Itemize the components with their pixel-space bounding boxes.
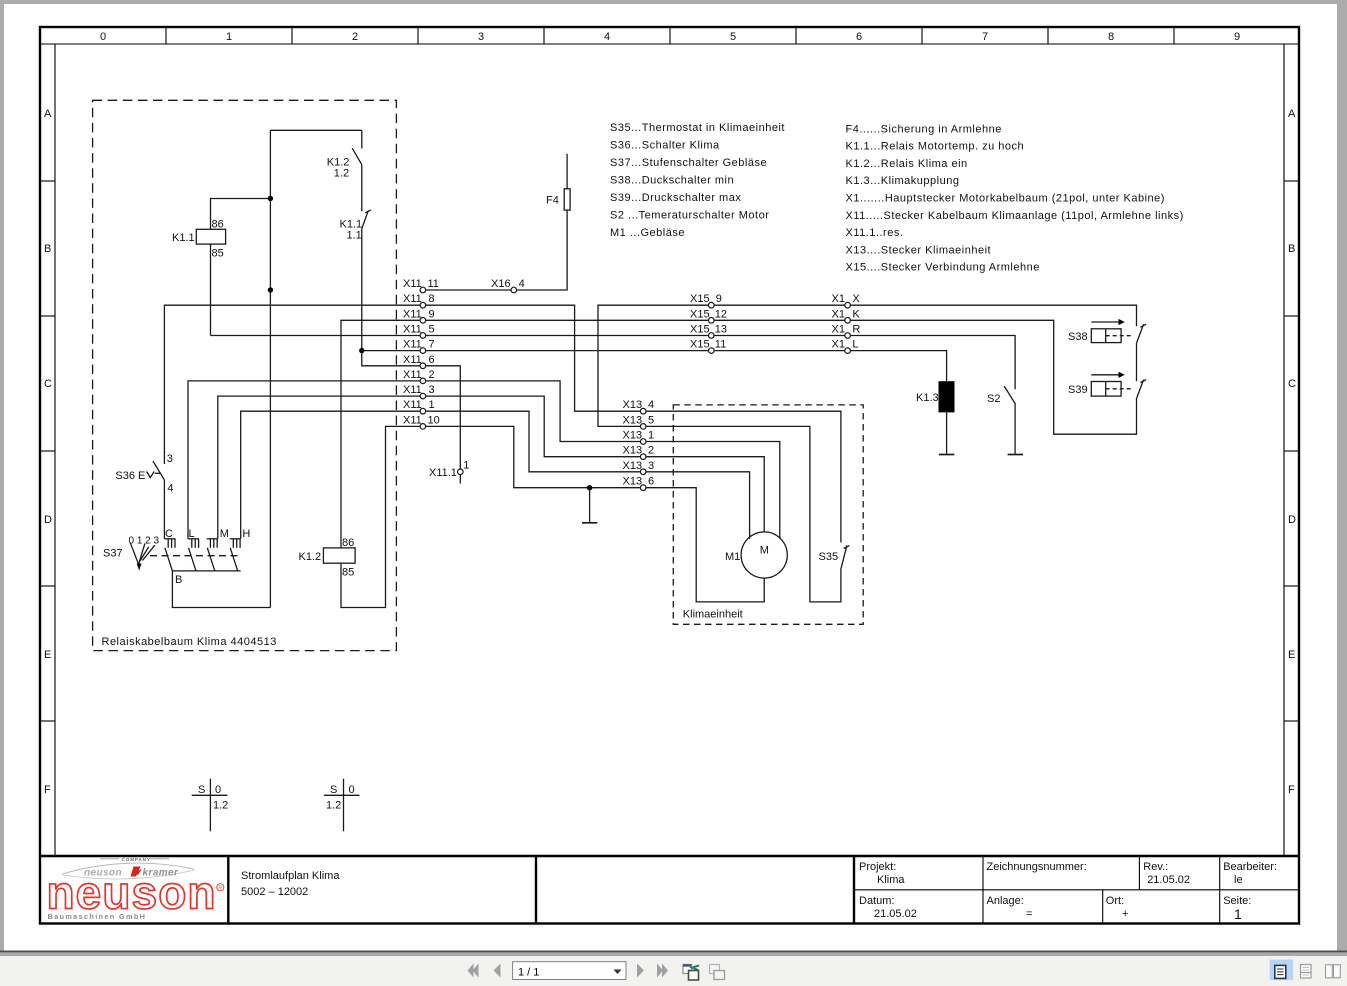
- svg-text:1.2: 1.2: [334, 168, 349, 180]
- svg-text:S38: S38: [1068, 331, 1088, 343]
- svg-text:+: +: [1122, 908, 1128, 920]
- svg-text:X1: X1: [832, 293, 845, 305]
- wire X11-10 to X13-6: [426, 426, 640, 487]
- wire X11-8 to X13-4: [426, 305, 640, 411]
- svg-text:E: E: [1288, 649, 1295, 661]
- node S/0 reference symbol 1: [209, 779, 211, 832]
- svg-text:10: 10: [428, 414, 440, 426]
- wire X11-9 row to K1.2 coil 86: [341, 320, 420, 548]
- svg-text:S2: S2: [987, 393, 1000, 405]
- wire X13-3 to motor: [646, 472, 749, 539]
- S37 contact H blade: [230, 548, 238, 571]
- connector X11 pin 6: [420, 363, 426, 369]
- node junction X11-7 tee: [359, 348, 364, 353]
- title block middle horizontal: [854, 889, 1299, 891]
- page layout continuous button: [1301, 965, 1312, 979]
- connector X1 pin R: [845, 333, 851, 339]
- connector X11 pin 9: [420, 318, 426, 324]
- svg-text:X11: X11: [403, 414, 422, 426]
- svg-text:5: 5: [648, 414, 654, 426]
- svg-text:Baumaschinen GmbH: Baumaschinen GmbH: [48, 912, 147, 921]
- svg-text:85: 85: [212, 248, 224, 260]
- svg-text:S36...Schalter Klima: S36...Schalter Klima: [610, 140, 720, 152]
- connector X11 pin 2: [420, 378, 426, 384]
- svg-text:S37...Stufenschalter Gebläse: S37...Stufenschalter Gebläse: [610, 157, 767, 169]
- wire X15-11 to X1-L: [714, 350, 844, 352]
- svg-text:S38...Duckschalter min: S38...Duckschalter min: [610, 175, 734, 187]
- wire X11.1 stub: [459, 475, 461, 484]
- wire S36-4 to S37-C: [163, 480, 165, 539]
- svg-text:3: 3: [167, 453, 173, 465]
- svg-text:12: 12: [715, 308, 727, 320]
- S37 common bus B: [172, 570, 240, 572]
- svg-text:X: X: [852, 293, 860, 305]
- S37 contact L blade: [189, 548, 197, 571]
- relay coil K1.1: [196, 229, 225, 244]
- pressure switch S38: [1091, 329, 1121, 343]
- toolbar previous page button: [494, 964, 501, 978]
- svg-text:B: B: [44, 243, 51, 255]
- kramer red arrow: [131, 867, 141, 877]
- svg-text:X11: X11: [403, 324, 422, 336]
- svg-text:A: A: [1288, 108, 1296, 120]
- svg-text:Anlage:: Anlage:: [987, 895, 1024, 907]
- connector X1 pin K: [845, 318, 851, 324]
- connector X11 pin 7: [420, 348, 426, 354]
- wire K1.2 coil 85 to X11-10: [341, 426, 420, 607]
- svg-text:F: F: [44, 784, 51, 796]
- wire K1.3 to ground: [946, 412, 948, 453]
- S37 contact L comb: [188, 538, 199, 540]
- wire X15-12 to X1-K: [714, 319, 844, 321]
- svg-text:1.1: 1.1: [347, 230, 362, 242]
- svg-text:X1: X1: [832, 308, 845, 320]
- wire X11-2 row to S37-L: [188, 381, 420, 539]
- svg-text:K: K: [852, 308, 860, 320]
- S39 contact blade: [1137, 380, 1144, 398]
- svg-text:7: 7: [982, 31, 988, 43]
- wire net A vertical: [269, 130, 271, 607]
- svg-text:S35...Thermostat in Klimaeinhe: S35...Thermostat in Klimaeinheit: [610, 122, 785, 134]
- ground symbol S2: [1008, 454, 1023, 456]
- svg-text:L: L: [852, 339, 858, 351]
- svg-text:C: C: [44, 378, 52, 390]
- top ruler column ticks: [165, 27, 167, 44]
- S38 dashed link: [1106, 335, 1134, 337]
- svg-text:X11: X11: [403, 339, 422, 351]
- divider after title cell: [535, 856, 537, 924]
- svg-text:X13: X13: [623, 460, 643, 472]
- wire X11-2 to X13-1: [426, 381, 640, 442]
- svg-text:1.2: 1.2: [326, 800, 341, 812]
- svg-text:D: D: [44, 514, 52, 526]
- svg-text:X13: X13: [623, 445, 643, 457]
- svg-text:2: 2: [648, 445, 654, 457]
- connector X11 pin 10: [420, 424, 426, 430]
- connector X13 pin 3: [640, 469, 646, 475]
- thermostat S35 blade: [841, 545, 847, 570]
- left ruler line: [54, 44, 56, 856]
- wire S39 back to X1-K: [851, 320, 1137, 434]
- svg-text:X11.1..res.: X11.1..res.: [846, 227, 904, 239]
- connector X15 pin 9: [709, 302, 715, 308]
- svg-text:H: H: [242, 528, 250, 540]
- S39 dashed link: [1106, 388, 1134, 390]
- svg-text:X11: X11: [403, 293, 422, 305]
- svg-text:X15: X15: [690, 324, 710, 336]
- svg-text:L: L: [189, 528, 195, 540]
- svg-text:13: 13: [715, 324, 727, 336]
- svg-text:S39: S39: [1068, 384, 1088, 396]
- wire X11-3 row to S37-M: [218, 396, 420, 539]
- svg-text:6: 6: [429, 354, 435, 366]
- svg-text:1: 1: [648, 430, 654, 442]
- relay coil K1.2: [323, 548, 355, 563]
- connector X11.1 pin 1: [458, 469, 464, 475]
- connector X11 pin 3: [420, 393, 426, 399]
- svg-text:Projekt:: Projekt:: [859, 861, 896, 873]
- top ruler line: [40, 43, 1299, 45]
- pressure switch S39: [1091, 382, 1121, 397]
- wire X11-3 to X13-2: [426, 396, 640, 457]
- svg-text:S35: S35: [819, 551, 839, 563]
- S37 contact C comb: [164, 538, 175, 540]
- svg-text:9: 9: [716, 293, 722, 305]
- svg-text:1: 1: [1234, 906, 1242, 922]
- svg-text:B: B: [175, 574, 182, 586]
- wire X1-L to K1.3: [851, 351, 947, 382]
- svg-text:C: C: [1288, 378, 1296, 390]
- svg-text:E: E: [44, 649, 51, 661]
- svg-text:A: A: [44, 108, 52, 120]
- node junction ground tee on X13-6 wire: [587, 485, 592, 490]
- svg-text:86: 86: [212, 219, 224, 231]
- wire S35 to X13-5: [646, 426, 841, 602]
- svg-text:Datum:: Datum:: [859, 895, 894, 907]
- svg-text:1: 1: [226, 31, 232, 43]
- svg-text:S: S: [330, 784, 337, 796]
- wire X16-4 to fuse F4: [517, 210, 567, 290]
- svg-text:1: 1: [429, 399, 435, 411]
- node S/0 reference symbol 2: [343, 779, 345, 832]
- toolbar page number box: [513, 962, 626, 980]
- wire X11-1 to X13-3: [426, 411, 640, 472]
- svg-text:M1 ...Gebläse: M1 ...Gebläse: [610, 227, 685, 239]
- wire X11-11 to X16-4: [426, 289, 511, 291]
- clutch coil K1.3: [939, 381, 955, 412]
- svg-text:S39...Druckschalter max: S39...Druckschalter max: [610, 192, 741, 204]
- toolbar first page button: [468, 964, 474, 978]
- left ruler row ticks: [40, 180, 55, 182]
- connector X13 pin 6: [640, 485, 646, 491]
- divider Zeichnungsnummer/Anlage: [982, 856, 984, 924]
- svg-text:D: D: [1288, 514, 1296, 526]
- svg-text:le: le: [1234, 874, 1243, 886]
- connector X15 pin 12: [709, 318, 715, 324]
- right ruler line: [1283, 44, 1285, 856]
- svg-text:F: F: [1288, 784, 1295, 796]
- wire X11-7 row to X15-11: [426, 350, 708, 352]
- connector X13 pin 4: [640, 408, 646, 414]
- divider Bearbeiter/Seite: [1219, 856, 1221, 924]
- svg-text:X11: X11: [403, 369, 422, 381]
- divider Rev: [1138, 856, 1140, 890]
- dashed enclosure Relaiskabelbaum Klima 4404513: [93, 100, 397, 650]
- connector X16 pin 4: [511, 287, 517, 293]
- svg-text:X13: X13: [623, 476, 643, 488]
- svg-text:86: 86: [342, 537, 354, 549]
- svg-text:4: 4: [604, 31, 610, 43]
- wire X11-7 stub: [362, 350, 420, 352]
- COMPANY caption: [100, 858, 119, 860]
- svg-text:X13: X13: [623, 414, 643, 426]
- fuse F4: [564, 189, 570, 210]
- svg-text:X15: X15: [690, 339, 710, 351]
- S38 actuating arrow: [1091, 321, 1119, 323]
- svg-text:2: 2: [429, 369, 435, 381]
- connector X1 pin X: [845, 302, 851, 308]
- right ruler row ticks: [1284, 180, 1299, 182]
- connector X11 pin 1: [420, 408, 426, 414]
- svg-text:S: S: [198, 784, 205, 796]
- svg-text:6: 6: [856, 31, 862, 43]
- wire ground stem: [589, 488, 591, 522]
- svg-text:B: B: [1288, 243, 1295, 255]
- svg-text:5: 5: [730, 31, 736, 43]
- svg-text:S37: S37: [103, 548, 123, 560]
- svg-text:X1: X1: [832, 324, 845, 336]
- ground symbol middle: [582, 522, 597, 524]
- switch S36 actuator link: [155, 472, 161, 474]
- svg-text:0: 0: [100, 31, 106, 43]
- wire X15-9 to X1-X: [714, 304, 844, 306]
- svg-text:Bearbeiter:: Bearbeiter:: [1223, 861, 1277, 873]
- svg-text:X15: X15: [690, 293, 710, 305]
- svg-text:3: 3: [429, 384, 435, 396]
- wire between K1.2 and K1.1 contacts: [361, 165, 363, 212]
- wire X1-R to S2: [851, 336, 1016, 390]
- svg-text:85: 85: [342, 567, 354, 579]
- blower motor M1: [741, 532, 787, 578]
- wire X11-5 row to X15-13: [426, 335, 708, 337]
- svg-text:X16: X16: [491, 278, 511, 290]
- switch K1.2 contact 1.2: [361, 130, 363, 148]
- svg-text:neuson: neuson: [47, 867, 216, 919]
- svg-text:X13: X13: [623, 399, 643, 411]
- svg-text:F4......Sicherung in Armlehne: F4......Sicherung in Armlehne: [846, 123, 1002, 135]
- svg-text:0: 0: [349, 784, 355, 796]
- dashed enclosure Klimaeinheit: [673, 405, 863, 624]
- S37 selector V symbol: [130, 543, 145, 565]
- wire K1.1 coil 85 to X11-5 row: [210, 244, 212, 335]
- svg-text:X13: X13: [623, 430, 643, 442]
- svg-text:X11: X11: [403, 278, 422, 290]
- svg-text:X15....Stecker Verbindung Arml: X15....Stecker Verbindung Armlehne: [846, 262, 1040, 274]
- registered mark: [217, 884, 224, 891]
- wire K1.1 contact to X11-7/X11-6: [362, 229, 420, 366]
- svg-text:R: R: [852, 324, 860, 336]
- S38 contact blade: [1137, 324, 1144, 342]
- divider Ort: [1102, 890, 1104, 924]
- svg-text:3: 3: [648, 460, 654, 472]
- svg-text:X11: X11: [403, 384, 422, 396]
- svg-text:7: 7: [429, 339, 435, 351]
- connector X13 pin 1: [640, 439, 646, 445]
- wire X1-X to S38: [851, 305, 1137, 326]
- svg-text:C: C: [165, 528, 173, 540]
- svg-text:X1.......Hauptstecker Motorkab: X1.......Hauptstecker Motorkabelbaum (21…: [846, 193, 1165, 205]
- switch K1.1 contact 1.1: [362, 211, 368, 229]
- svg-text:Klimaeinheit: Klimaeinheit: [683, 609, 743, 621]
- svg-text:K1.3...Klimakupplung: K1.3...Klimakupplung: [846, 175, 960, 187]
- svg-text:1.2: 1.2: [213, 800, 228, 812]
- svg-text:K1.1: K1.1: [172, 232, 195, 244]
- svg-text:M: M: [760, 545, 769, 557]
- svg-text:X13....Stecker Klimaeinheit: X13....Stecker Klimaeinheit: [846, 244, 992, 256]
- wire F4 supply stub: [566, 154, 568, 189]
- svg-text:1: 1: [463, 460, 469, 472]
- svg-text:K1.1...Relais Motortemp. zu ho: K1.1...Relais Motortemp. zu hoch: [846, 141, 1025, 153]
- divider after logo cell: [227, 856, 229, 924]
- svg-text:K1.2...Relais Klima ein: K1.2...Relais Klima ein: [846, 158, 968, 170]
- svg-text:Stromlaufplan Klima: Stromlaufplan Klima: [241, 870, 340, 882]
- svg-text:8: 8: [1108, 31, 1114, 43]
- toolbar previous view icon: [683, 965, 692, 974]
- wire S38 to S39: [1136, 343, 1138, 382]
- svg-text:X15: X15: [690, 308, 710, 320]
- connector X13 pin 2: [640, 454, 646, 460]
- svg-text:1 / 1: 1 / 1: [518, 967, 539, 979]
- neuson logo swoosh arcs: [62, 863, 194, 874]
- S37 contact H comb: [230, 538, 241, 540]
- svg-text:COMPANY: COMPANY: [122, 857, 151, 862]
- switch S36 blade: [153, 461, 165, 480]
- svg-text:K1.3: K1.3: [916, 392, 939, 404]
- grey strip under page: [0, 952, 1347, 956]
- connector X11 pin 8: [420, 302, 426, 308]
- page layout single button active: [1270, 960, 1294, 981]
- svg-text:21.05.02: 21.05.02: [874, 908, 917, 920]
- node junction net A / K1.1-86: [268, 196, 273, 201]
- temperature switch S2 blade: [1004, 386, 1015, 404]
- wire S2 to ground: [1014, 404, 1016, 453]
- svg-text:Relaiskabelbaum Klima 4404513: Relaiskabelbaum Klima 4404513: [102, 636, 277, 648]
- svg-text:11: 11: [715, 339, 726, 351]
- svg-text:Rev.:: Rev.:: [1143, 861, 1168, 873]
- svg-text:X11.....Stecker Kabelbaum Klim: X11.....Stecker Kabelbaum Klimaanlage (1…: [846, 210, 1184, 222]
- svg-text:M: M: [220, 528, 229, 540]
- svg-text:Ort:: Ort:: [1106, 895, 1124, 907]
- svg-text:9: 9: [1234, 31, 1240, 43]
- svg-text:R: R: [218, 886, 222, 892]
- wire motor to X13-6: [646, 488, 764, 602]
- svg-text:X11: X11: [403, 308, 422, 320]
- wire X13-2 to motor: [646, 457, 764, 532]
- connector X11 pin 11: [420, 287, 426, 293]
- node junction net A / X11-11: [268, 287, 273, 292]
- wire S37-B down to bottom bus: [172, 571, 270, 608]
- wire X11-1 row to S37-H: [241, 411, 420, 539]
- svg-text:2: 2: [352, 31, 358, 43]
- svg-text:M1: M1: [725, 551, 740, 563]
- toolbar last page button: [657, 964, 663, 978]
- dark line under page: [0, 951, 1347, 953]
- divider before Projekt cell: [853, 856, 855, 924]
- wire X11-5 row: [211, 335, 420, 337]
- svg-text:5: 5: [429, 324, 435, 336]
- S37 contact M blade: [207, 548, 215, 571]
- connector X1 pin L: [845, 348, 851, 354]
- svg-text:5002 – 12002: 5002 – 12002: [241, 886, 308, 898]
- wire X13-1 to motor: [646, 442, 780, 539]
- svg-text:0: 0: [215, 784, 221, 796]
- svg-text:3: 3: [478, 31, 484, 43]
- svg-text:X11: X11: [403, 399, 422, 411]
- switch S36 actuator: [147, 472, 155, 478]
- svg-text:X1: X1: [832, 339, 845, 351]
- wire X15-13 to X1-R: [714, 335, 844, 337]
- svg-text:X11.1: X11.1: [429, 467, 457, 479]
- connector X15 pin 11: [709, 348, 715, 354]
- connector X11 pin 5: [420, 333, 426, 339]
- svg-text:4: 4: [519, 278, 525, 290]
- connector X15 pin 13: [709, 333, 715, 339]
- wire X15-9 to X13-5: [598, 305, 708, 426]
- wire X13-4 to S35: [646, 411, 841, 542]
- S37 dashed coupling line: [150, 555, 238, 557]
- title block outline: [40, 855, 1299, 857]
- wire X11-8 row to S36: [164, 305, 420, 464]
- svg-text:4: 4: [167, 483, 173, 495]
- ground symbol K1.3: [939, 454, 954, 456]
- wire top bus K1.2 feed: [270, 129, 361, 131]
- wire K1.1 coil 86 to net A: [211, 199, 271, 230]
- svg-text:S36 E: S36 E: [115, 470, 145, 482]
- svg-text:Klima: Klima: [877, 874, 905, 886]
- svg-text:F4: F4: [546, 195, 559, 207]
- svg-text:6: 6: [648, 476, 654, 488]
- svg-text:4: 4: [648, 399, 654, 411]
- svg-text:9: 9: [429, 308, 435, 320]
- svg-text:S2 ...Temeraturschalter Motor: S2 ...Temeraturschalter Motor: [610, 210, 769, 222]
- S37 selector arrowhead: [137, 564, 142, 571]
- S37 wiper lines: [140, 547, 149, 562]
- toolbar next view icon: [710, 965, 720, 974]
- connector X13 pin 5: [640, 424, 646, 430]
- S37 contact M comb: [207, 538, 218, 540]
- wire X11-9 row to X15-12: [426, 319, 708, 321]
- svg-text:21.05.02: 21.05.02: [1147, 874, 1190, 886]
- svg-text:11: 11: [428, 278, 439, 290]
- svg-text:Zeichnungsnummer:: Zeichnungsnummer:: [987, 861, 1087, 873]
- page layout facing button: [1326, 965, 1333, 978]
- wire X11-6 to X11.1: [426, 366, 460, 469]
- S39 actuating arrow: [1091, 374, 1119, 376]
- svg-text:X11: X11: [403, 354, 422, 366]
- svg-text:8: 8: [429, 293, 435, 305]
- S37 contact C blade: [165, 548, 173, 571]
- svg-text:K1.2: K1.2: [299, 551, 322, 563]
- toolbar next page button: [637, 964, 644, 978]
- svg-text:=: =: [1026, 908, 1032, 920]
- toolbar background: [0, 956, 1347, 986]
